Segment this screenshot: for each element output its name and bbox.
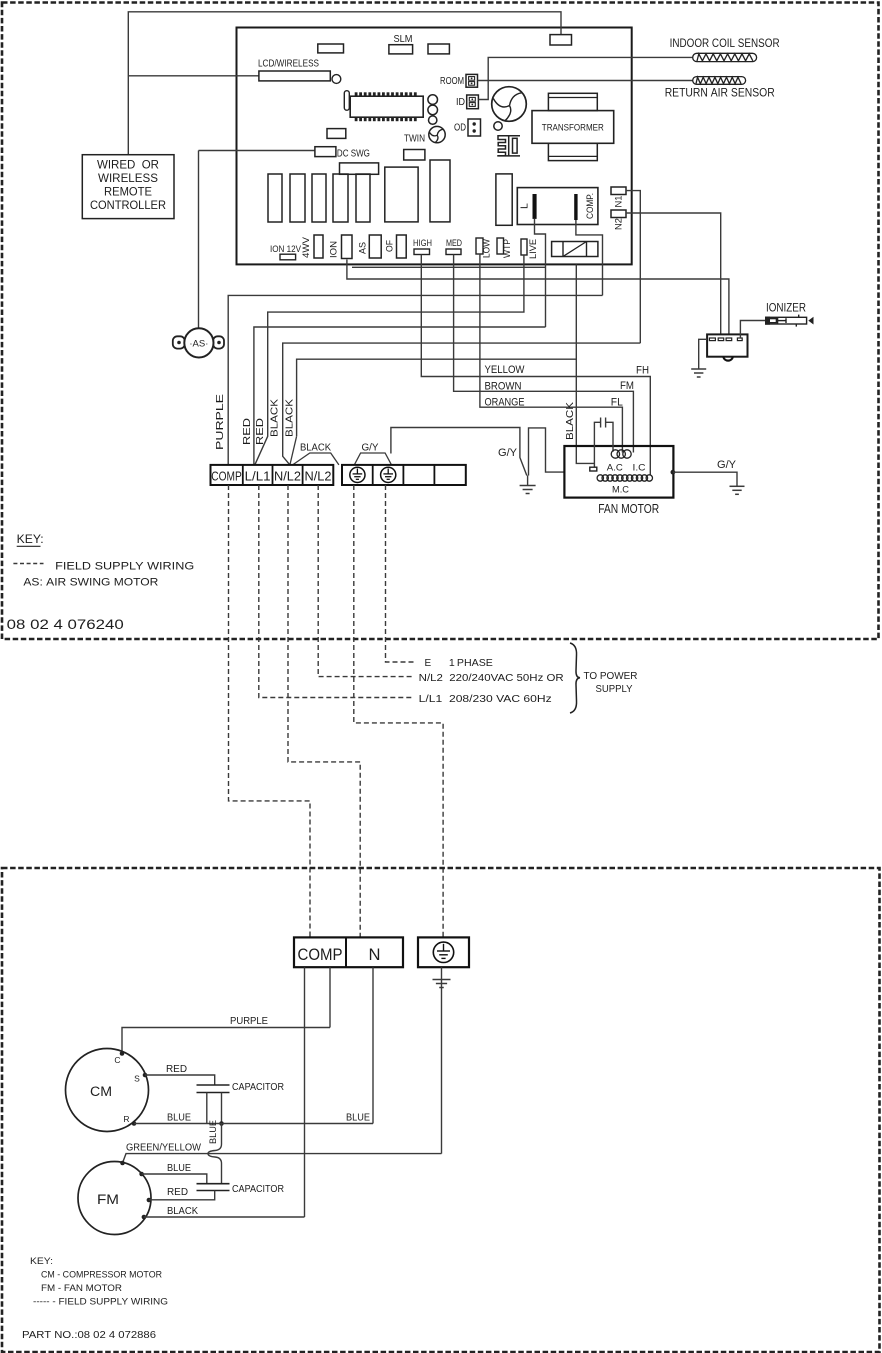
earth terminal block: [342, 465, 466, 485]
3 circle pads right of IC: [428, 95, 438, 105]
svg-text:R: R: [123, 1114, 129, 1124]
svg-text:DC SWG: DC SWG: [337, 149, 370, 160]
wire ionizer box to ionizer device: [740, 321, 765, 339]
ground symbol below G/Y: [520, 486, 536, 494]
svg-text:L/L1 208/230 VAC 60Hz: L/L1 208/230 VAC 60Hz: [419, 694, 552, 705]
ION connector rect: [342, 235, 353, 259]
LCD/WIRELESS connector strip: [259, 71, 330, 81]
svg-text:BLUE: BLUE: [346, 1112, 370, 1124]
CM terminal S dot: [143, 1073, 148, 1078]
junction dot capacitor-BLUE: [219, 1121, 224, 1126]
page 2 dashed border frame: [2, 868, 880, 1352]
RED wire FM to capacitor bottom: [149, 1191, 215, 1200]
FM capacitor plates: [197, 1184, 230, 1191]
AS air swing motor symbol: [173, 336, 185, 348]
DC SWG connector rect: [315, 147, 336, 157]
svg-text:LOW: LOW: [482, 239, 492, 258]
svg-text:BLACK: BLACK: [167, 1205, 198, 1217]
svg-text:ORANGE: ORANGE: [485, 396, 525, 408]
PCB indoor control board outline: [237, 28, 632, 265]
wire down to air swing motor: [198, 151, 200, 329]
FM red terminal dot: [147, 1198, 152, 1203]
SLM connector rect: [389, 45, 413, 54]
E-core / heatsink symbol: [498, 136, 520, 156]
svg-text:ION: ION: [329, 241, 339, 258]
svg-text:N/L2 220/240VAC 50Hz OR: N/L2 220/240VAC 50Hz OR: [419, 673, 564, 684]
svg-text:G/Y: G/Y: [717, 459, 737, 471]
svg-text:OD: OD: [454, 123, 466, 134]
transformer T1: [548, 93, 597, 110]
ionizer device symbol: [766, 315, 807, 327]
fan motor BLACK wire vertical: [576, 264, 594, 463]
svg-text:BLUE: BLUE: [167, 1112, 191, 1124]
fan motor FM circle: [78, 1162, 151, 1235]
svg-text:E: E: [425, 658, 432, 669]
dashed wire earth-2 to power supply E: [386, 485, 415, 662]
CM terminal C dot: [120, 1051, 125, 1056]
svg-text:BLACK: BLACK: [300, 442, 331, 454]
G/Y jumper wire over earth terminals: [354, 453, 391, 465]
svg-text:COMP: COMP: [298, 945, 343, 964]
wire ID to indoor coil sensor: [478, 57, 692, 99]
wire remote controller to LCD/WIRELESS connector: [128, 75, 259, 77]
svg-text:AS: AS: [358, 242, 368, 254]
earth wire down to green/yellow: [441, 967, 443, 1153]
lower earth symbol: [433, 942, 453, 962]
row of relay rectangles: [268, 174, 282, 222]
wire ION connector to ionizer box: [347, 260, 729, 335]
wire N1 down right side: [626, 191, 640, 344]
CM capacitor plates: [197, 1085, 230, 1093]
svg-text:G/Y: G/Y: [498, 447, 518, 459]
page 1 dashed border frame: [2, 3, 879, 640]
svg-text:----- - FIELD SUPPLY WIRING: ----- - FIELD SUPPLY WIRING: [33, 1297, 168, 1308]
svg-text:L/L1: L/L1: [245, 469, 271, 483]
svg-text:SUPPLY: SUPPLY: [596, 683, 633, 695]
svg-text:HIGH: HIGH: [413, 238, 432, 248]
svg-text:N1: N1: [614, 196, 625, 208]
top connector rect 3: [428, 44, 449, 54]
svg-text:RED: RED: [254, 417, 266, 445]
lower earth box: [418, 937, 469, 967]
FM blue terminal dot: [139, 1172, 144, 1177]
dashed wire N/L2 to lower N terminal: [288, 485, 360, 937]
svg-text:WTP: WTP: [502, 239, 512, 258]
svg-text:N2: N2: [614, 218, 625, 230]
rect above DC SWG: [327, 129, 346, 139]
svg-text:S: S: [134, 1074, 140, 1084]
relay contact rect with diagonal: [552, 242, 598, 257]
svg-text:CM - COMPRESSOR MOTOR: CM - COMPRESSOR MOTOR: [41, 1270, 162, 1281]
G/Y wire from earth terminal to ground: [391, 428, 527, 476]
svg-text:1 PHASE: 1 PHASE: [449, 658, 493, 669]
svg-text:N: N: [369, 945, 381, 964]
svg-text:TO POWER: TO POWER: [584, 670, 638, 682]
LOW connector rect: [476, 238, 483, 254]
GREEN/YELLOW wire FM to earth: [123, 1154, 442, 1163]
dashed wire COMP to lower COMP terminal: [229, 485, 311, 937]
svg-text:LCD/WIRELESS: LCD/WIRELESS: [258, 59, 319, 70]
blue jumper wire with hop over green/yellow: [208, 1124, 222, 1184]
wire LOW to FL: [480, 254, 623, 453]
wire COMP to FM BLACK: [304, 967, 306, 1217]
svg-text:WIRELESS: WIRELESS: [98, 173, 158, 185]
svg-text:CM: CM: [90, 1084, 112, 1099]
earth symbol terminal at 357.4: [350, 467, 365, 482]
wire from relay COMP bar: [576, 220, 603, 295]
IC chip U1 with pins: [344, 91, 423, 118]
svg-text:FM: FM: [620, 380, 634, 392]
svg-text:MED: MED: [446, 238, 462, 248]
ground symbol below lower earth box: [433, 980, 451, 988]
wire A below PCB border: [352, 266, 546, 268]
svg-text:N/L2: N/L2: [305, 469, 332, 483]
ionizer ground symbol: [691, 369, 706, 377]
ground stem: [527, 476, 529, 486]
CM capacitor left lead: [206, 1093, 208, 1124]
svg-text:RED: RED: [166, 1063, 187, 1075]
svg-text:·AS·: ·AS·: [189, 339, 208, 350]
tall rect mid PCB: [430, 160, 450, 222]
PURPLE wire to CM C terminal: [122, 1028, 330, 1054]
svg-text:M.C: M.C: [612, 485, 629, 496]
small circle pad below fan: [494, 122, 502, 130]
dashed wire earth to lower earth box: [354, 485, 443, 937]
WIRED OR WIRELESS REMOTE CONTROLLER box: [82, 155, 174, 219]
WTP connector rect: [497, 238, 504, 254]
svg-text:FL: FL: [611, 397, 623, 409]
svg-text:INDOOR COIL SENSOR: INDOOR COIL SENSOR: [670, 36, 780, 50]
svg-text:I.C: I.C: [633, 463, 646, 474]
ROOM connector: [466, 74, 478, 87]
wire from WIRED/WIRELESS REMOTE CONTROLLER to top connector: [128, 12, 561, 155]
N1 connector rect: [611, 187, 626, 195]
TWIN connector rect: [404, 150, 425, 161]
OD connector: [468, 119, 481, 136]
svg-text:FM - FAN MOTOR: FM - FAN MOTOR: [41, 1283, 122, 1294]
AS connector rect: [369, 235, 381, 258]
svg-text:SLM: SLM: [394, 34, 413, 45]
svg-text:BLACK: BLACK: [564, 402, 576, 440]
svg-text:KEY:: KEY:: [17, 534, 44, 546]
BLUE wire FM to capacitor: [142, 1174, 207, 1184]
svg-text:4WV: 4WV: [301, 237, 311, 258]
svg-text:KEY:: KEY:: [30, 1256, 53, 1267]
svg-text:BLACK: BLACK: [284, 399, 296, 437]
relay COMP bar: [574, 194, 577, 220]
svg-text:PURPLE: PURPLE: [214, 394, 226, 450]
svg-text:L: L: [519, 203, 531, 209]
relay box: [517, 188, 598, 225]
svg-text:BROWN: BROWN: [485, 380, 522, 392]
dashed legend sample: [13, 563, 43, 565]
svg-text:FM: FM: [97, 1192, 119, 1207]
wire MED to FM: [454, 255, 634, 453]
svg-text:YELLOW: YELLOW: [485, 364, 526, 376]
LIVE connector rect: [521, 239, 527, 255]
small fan symbol near TWIN: [429, 126, 445, 142]
fan motor capacitor: [594, 418, 613, 468]
large rect mid PCB: [385, 167, 418, 222]
BLUE wire CM R to N: [134, 1123, 373, 1125]
dashed wire L/L1 to power supply: [259, 485, 413, 698]
fan motor G/Y junction dot: [671, 470, 676, 475]
OF connector rect: [397, 235, 407, 258]
indoor coil sensor element: [693, 53, 757, 61]
svg-text:PURPLE: PURPLE: [230, 1015, 268, 1027]
wire N2 to ionizer box: [626, 213, 721, 334]
svg-text:N/L2: N/L2: [274, 469, 301, 483]
ID connector: [467, 95, 479, 109]
relay L bar: [533, 194, 537, 219]
svg-text:C: C: [114, 1055, 120, 1065]
wire N1 to N/L2 (BLACK): [283, 343, 641, 465]
4WV connector rect: [314, 235, 323, 258]
fan motor box: [564, 446, 673, 498]
svg-text:A.C: A.C: [607, 463, 623, 474]
svg-text:FH: FH: [636, 365, 649, 377]
wire ground junction to fan motor: [529, 428, 565, 476]
wire COMP to PURPLE: [329, 967, 331, 1027]
svg-text:LIVE: LIVE: [528, 239, 538, 259]
svg-text:REMOTE: REMOTE: [104, 187, 152, 199]
svg-text:TRANSFORMER: TRANSFORMER: [542, 123, 604, 134]
svg-text:OF: OF: [385, 240, 395, 252]
CM capacitor right lead: [221, 1093, 223, 1124]
earth symbol terminal at 388.2: [381, 467, 396, 482]
FM black terminal dot: [142, 1215, 147, 1220]
wire DC SWG to air swing motor: [199, 150, 315, 152]
KEY underline: [17, 545, 41, 547]
svg-text:ID: ID: [456, 97, 465, 108]
BLACK jumper wire over N/L2 terminals: [293, 453, 339, 465]
svg-text:ROOM: ROOM: [440, 76, 464, 87]
svg-text:08 02 4 076240: 08 02 4 076240: [7, 617, 124, 632]
svg-text:AS: AIR SWING MOTOR: AS: AIR SWING MOTOR: [23, 577, 158, 589]
svg-text:CAPACITOR: CAPACITOR: [232, 1081, 284, 1093]
svg-text:BLUE: BLUE: [167, 1162, 191, 1174]
RED wire CM S to capacitor: [145, 1075, 215, 1085]
lower terminal block COMP / N: [294, 937, 403, 967]
CM terminal R dot: [132, 1121, 137, 1126]
HIGH rect: [414, 249, 430, 255]
svg-text:WIRED OR: WIRED OR: [97, 160, 159, 172]
svg-text:RED: RED: [167, 1186, 188, 1198]
svg-text:IONIZER: IONIZER: [766, 303, 806, 315]
wire relay-L to L/L1 (RED): [254, 327, 546, 465]
wire ROOM to return air sensor: [478, 80, 693, 82]
N2 connector rect: [611, 210, 626, 218]
PURPLE wire run (relay COMP to terminal COMP): [228, 295, 602, 465]
FM green/yellow terminal dot: [120, 1161, 125, 1166]
MED rect: [446, 249, 461, 255]
svg-text:ION 12V: ION 12V: [270, 244, 301, 254]
A.C - I.C coil (3 loops): [611, 450, 631, 458]
dashed wire N/L2-2 to power supply: [318, 485, 412, 677]
tall rect left of relay: [496, 174, 512, 225]
top edge connector: [550, 35, 572, 45]
circle pad right of LCD connector: [332, 75, 341, 84]
return air sensor element: [693, 77, 746, 85]
rect below DC SWG: [340, 163, 379, 174]
ionizer supply box: [707, 334, 747, 356]
svg-text:RETURN AIR SENSOR: RETURN AIR SENSOR: [665, 86, 775, 100]
compressor motor CM circle: [66, 1049, 149, 1132]
svg-text:PART NO.:08 02 4 072886: PART NO.:08 02 4 072886: [22, 1330, 156, 1341]
M.C main coil (11 loops): [597, 475, 652, 481]
svg-text:CONTROLLER: CONTROLLER: [90, 200, 166, 212]
BLACK wire 2 diagonal: [290, 436, 297, 465]
svg-text:BLUE: BLUE: [208, 1120, 219, 1144]
wire N/L2 BLACK-2 to fan BLACK junction: [297, 359, 577, 436]
G/Y wire from fan motor to ground: [673, 472, 737, 486]
ionizer box bottom circle: [723, 357, 733, 361]
svg-text:CAPACITOR: CAPACITOR: [232, 1183, 284, 1195]
svg-text:FIELD SUPPLY WIRING: FIELD SUPPLY WIRING: [55, 561, 194, 573]
BLACK wire FM to COMP: [144, 1216, 305, 1218]
svg-text:G/Y: G/Y: [362, 442, 379, 454]
wire N to BLUE: [372, 967, 374, 1123]
svg-text:GREEN/YELLOW: GREEN/YELLOW: [126, 1142, 201, 1154]
svg-text:FAN MOTOR: FAN MOTOR: [598, 502, 659, 516]
fan motor A.C tab connector: [590, 467, 597, 471]
svg-text:RED: RED: [241, 417, 253, 445]
wire from relay L bar: [535, 219, 546, 327]
svg-text:COMP.: COMP.: [585, 193, 596, 219]
wire HIGH to FH: [421, 255, 650, 475]
svg-text:COMP: COMP: [211, 469, 242, 483]
ION 12V rect: [280, 254, 296, 260]
terminal block COMP / L/L1 / N/L2 / N/L2: [211, 465, 334, 485]
svg-text:TWIN: TWIN: [404, 134, 425, 145]
ionizer ground wire: [699, 339, 707, 368]
svg-text:BLACK: BLACK: [269, 399, 281, 437]
top connector rect 1: [318, 44, 344, 53]
fan motor ground symbol: [730, 486, 745, 494]
large fan symbol: [492, 87, 527, 122]
wire LIVE to L/L1 (RED): [255, 255, 524, 465]
brace for TO POWER SUPPLY: [570, 643, 580, 713]
